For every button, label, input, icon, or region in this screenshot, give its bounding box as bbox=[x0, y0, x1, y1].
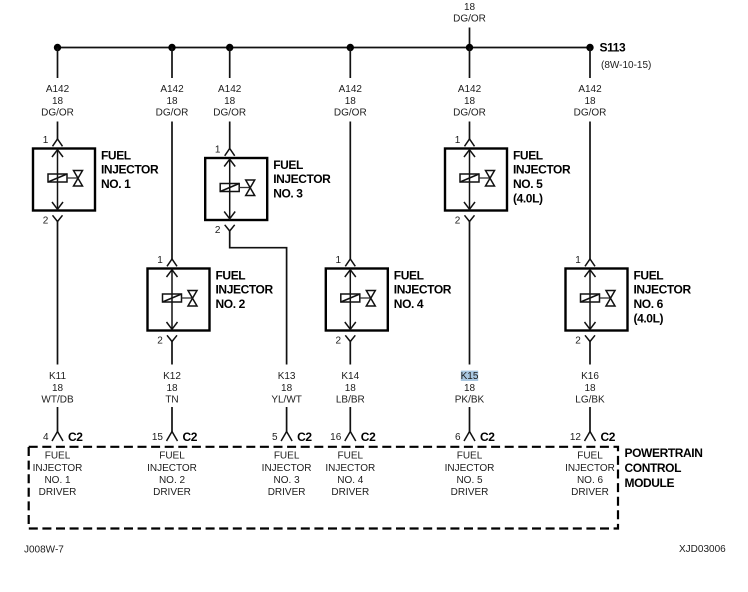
pin 1 connector chevron injector 6 bbox=[585, 259, 595, 266]
svg-text:INJECTOR: INJECTOR bbox=[101, 163, 159, 177]
svg-text:TN: TN bbox=[165, 395, 178, 406]
wire K16 lower segment bbox=[589, 407, 591, 432]
svg-text:NO. 2: NO. 2 bbox=[159, 475, 186, 486]
pin 1 connector chevron injector 3 bbox=[225, 149, 235, 156]
svg-text:1: 1 bbox=[215, 145, 221, 156]
svg-text:A142: A142 bbox=[339, 84, 363, 95]
wire A142 lower segment column 4 bbox=[349, 122, 351, 260]
connector C2 pin 4 chevron bbox=[52, 432, 63, 442]
wire label K15 18 PK/BK bbox=[455, 371, 485, 406]
svg-text:CONTROL: CONTROL bbox=[625, 461, 682, 475]
wire label K16 18 LG/BK bbox=[575, 371, 605, 406]
svg-text:FUEL: FUEL bbox=[513, 148, 543, 162]
svg-text:(4.0L): (4.0L) bbox=[634, 312, 664, 326]
svg-text:FUEL: FUEL bbox=[577, 451, 603, 462]
svg-text:6: 6 bbox=[455, 432, 461, 443]
svg-text:K15: K15 bbox=[461, 371, 479, 382]
svg-text:18: 18 bbox=[464, 2, 476, 13]
svg-text:NO. 6: NO. 6 bbox=[577, 475, 604, 486]
svg-text:LG/BK: LG/BK bbox=[575, 395, 605, 406]
wire label K14 18 LB/BR bbox=[336, 371, 365, 406]
svg-text:NO. 1: NO. 1 bbox=[44, 475, 71, 486]
pin 2 connector chevron injector 4 bbox=[345, 335, 355, 341]
svg-text:DRIVER: DRIVER bbox=[39, 487, 77, 498]
svg-text:INJECTOR: INJECTOR bbox=[513, 163, 571, 177]
svg-text:YL/WT: YL/WT bbox=[271, 395, 302, 406]
svg-text:NO. 5: NO. 5 bbox=[456, 475, 483, 486]
wire A142 upper segment column 3 bbox=[229, 48, 231, 79]
connector C2 pin 15 chevron bbox=[167, 432, 178, 442]
powertrain control module U1 dashed box bbox=[29, 447, 618, 529]
svg-text:POWERTRAIN: POWERTRAIN bbox=[625, 446, 703, 460]
svg-text:NO. 3: NO. 3 bbox=[273, 187, 303, 201]
svg-text:(4.0L): (4.0L) bbox=[513, 192, 543, 206]
svg-text:A142: A142 bbox=[160, 84, 184, 95]
wire K13 lower segment bbox=[286, 407, 288, 432]
svg-text:18: 18 bbox=[345, 96, 357, 107]
fuel injector FI5 box bbox=[445, 149, 507, 211]
svg-text:NO. 3: NO. 3 bbox=[274, 475, 301, 486]
svg-text:15: 15 bbox=[152, 432, 164, 443]
wire K15 lower segment bbox=[469, 407, 471, 432]
wire K12 lower segment bbox=[171, 407, 173, 432]
svg-text:DG/OR: DG/OR bbox=[41, 108, 74, 119]
svg-text:K16: K16 bbox=[581, 371, 599, 382]
wire label A142 18 DG/OR column 6 bbox=[574, 84, 607, 119]
svg-text:MODULE: MODULE bbox=[625, 476, 675, 490]
wire A142 upper segment column 1 bbox=[57, 48, 59, 79]
wire K14 upper segment bbox=[349, 342, 351, 365]
svg-text:K14: K14 bbox=[341, 371, 359, 382]
svg-text:4: 4 bbox=[43, 432, 49, 443]
svg-text:INJECTOR: INJECTOR bbox=[273, 172, 331, 186]
svg-text:C2: C2 bbox=[601, 430, 616, 444]
wire label A142 18 DG/OR column 5 bbox=[453, 84, 486, 119]
svg-text:2: 2 bbox=[575, 335, 581, 346]
svg-text:INJECTOR: INJECTOR bbox=[634, 283, 692, 297]
fuel injector FI2 box bbox=[148, 269, 210, 331]
svg-text:INJECTOR: INJECTOR bbox=[394, 283, 452, 297]
pin 1 connector chevron injector 1 bbox=[53, 139, 63, 146]
svg-text:18: 18 bbox=[166, 383, 178, 394]
junction dot column 2 bbox=[168, 44, 175, 51]
svg-text:DG/OR: DG/OR bbox=[334, 108, 367, 119]
svg-text:K12: K12 bbox=[163, 371, 181, 382]
svg-text:FUEL: FUEL bbox=[634, 268, 664, 282]
svg-text:5: 5 bbox=[272, 432, 278, 443]
svg-text:FUEL: FUEL bbox=[101, 148, 131, 162]
wire K15 upper segment bbox=[469, 222, 471, 365]
junction dot column 3 bbox=[226, 44, 233, 51]
svg-text:DG/OR: DG/OR bbox=[453, 14, 486, 25]
svg-text:A142: A142 bbox=[46, 84, 70, 95]
wire A142 lower segment column 1 bbox=[57, 122, 59, 140]
svg-text:DG/OR: DG/OR bbox=[574, 108, 607, 119]
wire A142 lower segment column 2 bbox=[171, 122, 173, 260]
svg-text:A142: A142 bbox=[218, 84, 242, 95]
svg-text:DRIVER: DRIVER bbox=[153, 487, 191, 498]
PCM driver label column 5 bbox=[445, 451, 495, 498]
connector C2 pin 6 chevron bbox=[464, 432, 475, 442]
wire K11 upper segment bbox=[57, 222, 59, 365]
svg-text:NO. 5: NO. 5 bbox=[513, 177, 543, 191]
pin 2 connector chevron injector 3 bbox=[225, 225, 235, 231]
svg-text:2: 2 bbox=[43, 215, 49, 226]
junction dot column 1 bbox=[54, 44, 61, 51]
svg-text:1: 1 bbox=[455, 135, 461, 146]
wire label A142 18 DG/OR column 1 bbox=[41, 84, 74, 119]
component name label injector 5 bbox=[513, 148, 571, 205]
svg-text:2: 2 bbox=[215, 225, 221, 236]
svg-text:1: 1 bbox=[157, 255, 163, 266]
wire A142 lower segment column 3 bbox=[229, 122, 231, 149]
svg-text:18: 18 bbox=[52, 96, 64, 107]
svg-text:NO. 4: NO. 4 bbox=[394, 297, 424, 311]
svg-text:FUEL: FUEL bbox=[394, 268, 424, 282]
wire K11 lower segment bbox=[57, 407, 59, 432]
fuel injector FI1 box bbox=[33, 149, 95, 211]
svg-text:S113: S113 bbox=[600, 41, 626, 55]
wire label K12 18 TN bbox=[163, 371, 181, 406]
junction dot column 4 bbox=[347, 44, 354, 51]
svg-text:INJECTOR: INJECTOR bbox=[147, 463, 197, 474]
svg-text:FUEL: FUEL bbox=[273, 158, 303, 172]
node S113 label bbox=[600, 41, 652, 71]
net label 18 DG/OR (top feed) bbox=[453, 2, 486, 25]
svg-text:WT/DB: WT/DB bbox=[41, 395, 74, 406]
svg-text:NO. 1: NO. 1 bbox=[101, 177, 131, 191]
svg-text:FUEL: FUEL bbox=[338, 451, 364, 462]
pin 1 connector chevron injector 5 bbox=[465, 139, 475, 146]
svg-text:INJECTOR: INJECTOR bbox=[216, 283, 274, 297]
fuel injector FI6 box bbox=[566, 269, 628, 331]
svg-text:DRIVER: DRIVER bbox=[268, 487, 306, 498]
svg-text:18: 18 bbox=[584, 383, 596, 394]
wire splice bus S113 horizontal bbox=[58, 47, 591, 49]
wire A142 upper segment column 2 bbox=[171, 48, 173, 79]
svg-text:INJECTOR: INJECTOR bbox=[325, 463, 375, 474]
wire label A142 18 DG/OR column 3 bbox=[213, 84, 246, 119]
component name label injector 3 bbox=[273, 158, 331, 201]
svg-text:(8W-10-15): (8W-10-15) bbox=[601, 60, 651, 71]
wire K14 lower segment bbox=[349, 407, 351, 432]
svg-text:J008W-7: J008W-7 bbox=[24, 545, 64, 556]
svg-text:18: 18 bbox=[224, 96, 236, 107]
component name label injector 4 bbox=[394, 268, 452, 311]
svg-text:DG/OR: DG/OR bbox=[213, 108, 246, 119]
pin 2 connector chevron injector 5 bbox=[465, 215, 475, 221]
svg-text:18: 18 bbox=[584, 96, 596, 107]
svg-text:PK/BK: PK/BK bbox=[455, 395, 485, 406]
wire A142 lower segment column 6 bbox=[589, 122, 591, 260]
component name label injector 6 bbox=[634, 268, 692, 325]
wire label A142 18 DG/OR column 2 bbox=[156, 84, 189, 119]
svg-text:1: 1 bbox=[336, 255, 342, 266]
highlight box on K15 label bbox=[461, 371, 478, 381]
svg-text:DRIVER: DRIVER bbox=[451, 487, 489, 498]
svg-text:INJECTOR: INJECTOR bbox=[445, 463, 495, 474]
svg-text:DG/OR: DG/OR bbox=[453, 108, 486, 119]
wire K12 upper segment bbox=[171, 342, 173, 365]
splice S113 dot bbox=[586, 44, 593, 51]
svg-text:2: 2 bbox=[336, 335, 342, 346]
svg-text:16: 16 bbox=[330, 432, 342, 443]
connector C2 pin 16 chevron bbox=[345, 432, 356, 442]
svg-text:12: 12 bbox=[570, 432, 582, 443]
wire label A142 18 DG/OR column 4 bbox=[334, 84, 367, 119]
fuel injector FI4 box bbox=[326, 269, 388, 331]
svg-text:FUEL: FUEL bbox=[457, 451, 483, 462]
pin 2 connector chevron injector 6 bbox=[585, 335, 595, 341]
connector C2 pin 12 chevron bbox=[585, 432, 596, 442]
junction dot column 5 bbox=[466, 44, 473, 51]
fuel injector FI3 box bbox=[205, 158, 267, 220]
svg-text:K11: K11 bbox=[49, 371, 66, 382]
wire K16 upper segment bbox=[589, 342, 591, 365]
svg-text:DRIVER: DRIVER bbox=[331, 487, 369, 498]
wire label K11 18 WT/DB bbox=[41, 371, 74, 406]
wire top feed into splice bus bbox=[469, 28, 471, 48]
PCM driver label column 1 bbox=[33, 451, 83, 498]
svg-text:C2: C2 bbox=[297, 430, 312, 444]
svg-text:18: 18 bbox=[52, 383, 64, 394]
svg-text:INJECTOR: INJECTOR bbox=[262, 463, 312, 474]
svg-text:FUEL: FUEL bbox=[45, 451, 71, 462]
component name label injector 1 bbox=[101, 148, 159, 191]
pin 2 connector chevron injector 1 bbox=[53, 215, 63, 221]
svg-text:18: 18 bbox=[166, 96, 178, 107]
svg-text:FUEL: FUEL bbox=[216, 268, 246, 282]
svg-text:DRIVER: DRIVER bbox=[571, 487, 609, 498]
PCM driver label column 4 bbox=[325, 451, 375, 498]
svg-text:2: 2 bbox=[157, 335, 163, 346]
svg-text:C2: C2 bbox=[183, 430, 198, 444]
pin 2 connector chevron injector 2 bbox=[167, 335, 177, 341]
svg-text:NO. 6: NO. 6 bbox=[634, 297, 664, 311]
svg-text:INJECTOR: INJECTOR bbox=[565, 463, 615, 474]
svg-text:C2: C2 bbox=[480, 430, 495, 444]
svg-text:18: 18 bbox=[464, 96, 476, 107]
svg-text:18: 18 bbox=[281, 383, 293, 394]
PCM driver label column 3 bbox=[262, 451, 312, 498]
pin 1 connector chevron injector 4 bbox=[345, 259, 355, 266]
svg-text:XJD03006: XJD03006 bbox=[679, 544, 726, 555]
connector C2 pin 5 chevron bbox=[281, 432, 292, 442]
svg-text:C2: C2 bbox=[361, 430, 376, 444]
svg-text:NO. 2: NO. 2 bbox=[216, 297, 246, 311]
svg-text:A142: A142 bbox=[458, 84, 482, 95]
svg-text:NO. 4: NO. 4 bbox=[337, 475, 364, 486]
wire label K13 18 YL/WT bbox=[271, 371, 302, 406]
wire A142 upper segment column 6 bbox=[589, 48, 591, 79]
svg-text:INJECTOR: INJECTOR bbox=[33, 463, 83, 474]
svg-text:K13: K13 bbox=[278, 371, 296, 382]
wire K13 jog segment bbox=[230, 231, 287, 365]
svg-text:A142: A142 bbox=[578, 84, 602, 95]
svg-text:LB/BR: LB/BR bbox=[336, 395, 365, 406]
pin 1 connector chevron injector 2 bbox=[167, 259, 177, 266]
PCM driver label column 6 bbox=[565, 451, 615, 498]
component name label injector 2 bbox=[216, 268, 274, 311]
svg-text:18: 18 bbox=[345, 383, 357, 394]
wire A142 upper segment column 5 bbox=[469, 48, 471, 79]
svg-text:1: 1 bbox=[575, 255, 581, 266]
wire A142 upper segment column 4 bbox=[349, 48, 351, 79]
svg-text:FUEL: FUEL bbox=[159, 451, 185, 462]
PCM driver label column 2 bbox=[147, 451, 197, 498]
wire A142 lower segment column 5 bbox=[469, 122, 471, 140]
svg-text:18: 18 bbox=[464, 383, 476, 394]
svg-text:1: 1 bbox=[43, 135, 49, 146]
component name label powertrain control module bbox=[625, 446, 703, 490]
svg-text:DG/OR: DG/OR bbox=[156, 108, 189, 119]
svg-text:2: 2 bbox=[455, 215, 461, 226]
svg-text:FUEL: FUEL bbox=[274, 451, 300, 462]
svg-text:C2: C2 bbox=[68, 430, 83, 444]
